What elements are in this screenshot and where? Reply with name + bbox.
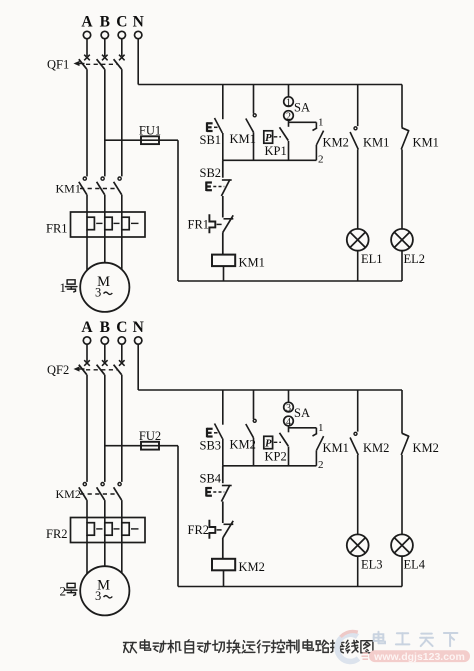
svg-text:KP2: KP2 bbox=[265, 450, 287, 464]
svg-text:KM1: KM1 bbox=[363, 136, 389, 150]
svg-text:SB4: SB4 bbox=[200, 471, 222, 485]
svg-text:2: 2 bbox=[318, 459, 324, 471]
svg-text:FR2: FR2 bbox=[46, 527, 68, 541]
svg-text:FU1: FU1 bbox=[139, 124, 161, 138]
svg-text:KM2: KM2 bbox=[363, 441, 389, 455]
svg-text:FR2: FR2 bbox=[188, 523, 210, 537]
svg-text:SA: SA bbox=[294, 406, 310, 420]
svg-text:1: 1 bbox=[60, 280, 67, 295]
svg-text:N: N bbox=[133, 14, 144, 31]
svg-text:SB3: SB3 bbox=[200, 438, 222, 452]
svg-text:KM1: KM1 bbox=[239, 256, 265, 270]
svg-text:2: 2 bbox=[60, 583, 67, 598]
svg-text:KM2: KM2 bbox=[56, 487, 81, 501]
svg-text:QF1: QF1 bbox=[47, 58, 69, 72]
svg-text:3: 3 bbox=[286, 403, 291, 414]
svg-text:KM1: KM1 bbox=[323, 441, 349, 455]
svg-text:A: A bbox=[81, 319, 93, 336]
svg-text:SB2: SB2 bbox=[200, 166, 222, 180]
svg-text:KM1: KM1 bbox=[56, 182, 81, 196]
svg-text:KM1: KM1 bbox=[413, 136, 439, 150]
svg-text:EL3: EL3 bbox=[361, 558, 383, 572]
svg-text:A: A bbox=[81, 14, 93, 31]
svg-text:1: 1 bbox=[318, 422, 324, 434]
svg-text:P: P bbox=[265, 439, 272, 450]
svg-text:FR1: FR1 bbox=[46, 222, 68, 236]
svg-text:EL2: EL2 bbox=[404, 252, 426, 266]
svg-text:KM2: KM2 bbox=[239, 560, 265, 574]
svg-text:KP1: KP1 bbox=[265, 144, 287, 158]
svg-text:C: C bbox=[116, 319, 127, 336]
svg-text:1: 1 bbox=[318, 116, 324, 128]
svg-text:KM1: KM1 bbox=[230, 132, 256, 146]
svg-text:2: 2 bbox=[318, 154, 324, 166]
svg-text:1: 1 bbox=[286, 97, 291, 108]
svg-text:B: B bbox=[100, 14, 110, 31]
svg-text:EL4: EL4 bbox=[404, 558, 426, 572]
svg-text:EL1: EL1 bbox=[361, 252, 383, 266]
svg-text:B: B bbox=[100, 319, 110, 336]
svg-text:FU2: FU2 bbox=[139, 429, 161, 443]
svg-text:C: C bbox=[116, 14, 127, 31]
svg-text:QF2: QF2 bbox=[47, 363, 69, 377]
svg-text:N: N bbox=[133, 319, 144, 336]
svg-text:FR1: FR1 bbox=[188, 218, 210, 232]
svg-text:KM2: KM2 bbox=[323, 136, 349, 150]
svg-text:KM2: KM2 bbox=[413, 441, 439, 455]
svg-text:SB1: SB1 bbox=[200, 133, 222, 147]
svg-text:3: 3 bbox=[95, 285, 101, 299]
svg-text:P: P bbox=[265, 133, 272, 144]
svg-text:www.dgjs123.com: www.dgjs123.com bbox=[373, 651, 465, 663]
svg-text:SA: SA bbox=[294, 101, 310, 115]
svg-text:3: 3 bbox=[95, 589, 101, 603]
svg-text:KM2: KM2 bbox=[230, 438, 256, 452]
